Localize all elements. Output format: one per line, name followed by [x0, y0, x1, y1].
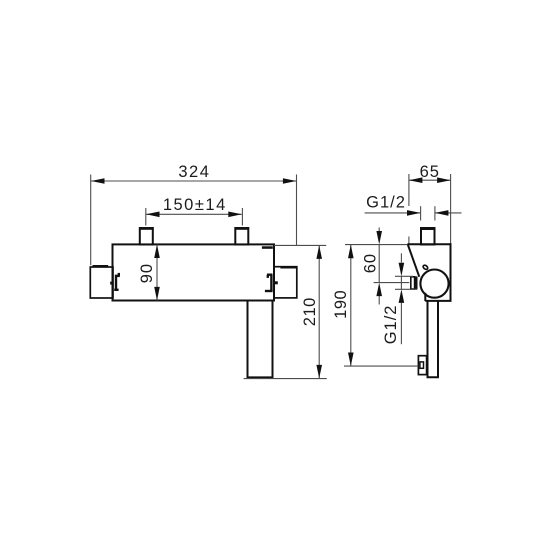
dimension G1/2 top leader lines — [365, 206, 462, 220]
check valve detail right — [265, 274, 273, 291]
dimension 324 line — [91, 175, 297, 266]
end cap right (front view) — [274, 267, 297, 298]
dimension G1/2 side arrowheads — [399, 263, 405, 303]
hose holder bracket (side view) — [418, 356, 426, 375]
dimension 210 extension lines — [244, 245, 327, 378]
svg-text:65: 65 — [420, 163, 440, 181]
dimension 90 arrowheads — [154, 245, 160, 301]
dimension 60 arrowheads — [376, 231, 382, 296]
dimension 65 arrowheads — [409, 177, 451, 183]
dimension 150±14 line — [146, 208, 243, 226]
knob button — [422, 264, 428, 270]
supply pipe (side view) — [421, 228, 435, 245]
svg-text:150±14: 150±14 — [163, 196, 227, 214]
dimension 190 extension lines — [344, 245, 418, 367]
svg-text:90: 90 — [138, 263, 156, 283]
dimension G1/2 side lines — [395, 253, 417, 344]
end cap left (front view) — [90, 267, 113, 298]
dimension 60 lines — [374, 228, 410, 305]
control knob circle (side view) — [420, 270, 448, 298]
dimension G1/2 top arrowheads — [407, 210, 448, 216]
downpipe (side view) — [428, 301, 439, 377]
inlet connector left (front view) — [140, 228, 153, 245]
svg-text:G1/2: G1/2 — [382, 305, 400, 345]
inlet connector right (front view) — [235, 228, 248, 245]
downpipe (front view) — [248, 301, 273, 378]
dimension 150±14 arrowheads — [146, 212, 242, 218]
svg-text:190: 190 — [332, 290, 350, 319]
mixer body (side view) — [407, 243, 451, 301]
svg-text:210: 210 — [301, 297, 319, 326]
dimension 190 arrowheads — [348, 245, 354, 366]
svg-text:324: 324 — [178, 163, 210, 181]
svg-text:60: 60 — [361, 253, 379, 273]
dimension 210 arrowheads — [316, 245, 322, 378]
shower outlet stub (side view) — [411, 277, 415, 289]
mixer body (front view) — [113, 244, 275, 300]
dimension 324 arrowheads — [91, 178, 296, 184]
check valve detail left — [114, 273, 120, 291]
dimension 65 line — [409, 174, 451, 244]
small dash detail top-right of body — [262, 246, 273, 249]
dimension 90 line — [156, 245, 158, 301]
svg-text:G1/2: G1/2 — [366, 194, 406, 212]
